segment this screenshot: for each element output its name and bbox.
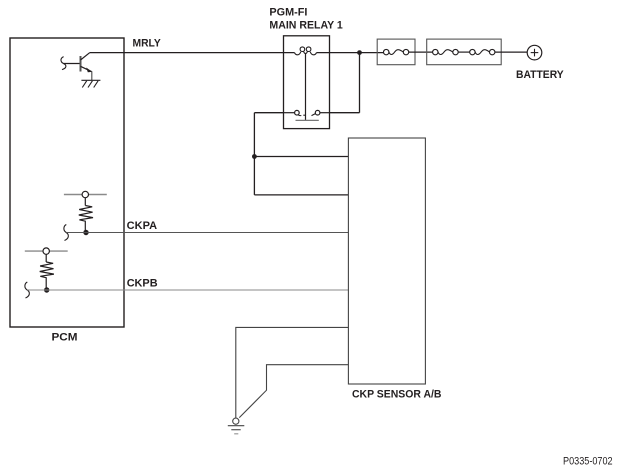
svg-text:CKPA: CKPA <box>127 220 157 232</box>
svg-text:PCM: PCM <box>52 332 78 344</box>
svg-text:MAIN RELAY 1: MAIN RELAY 1 <box>269 20 342 32</box>
svg-text:BATTERY: BATTERY <box>516 69 564 81</box>
svg-text:MRLY: MRLY <box>133 37 162 49</box>
svg-text:CKPB: CKPB <box>127 278 158 290</box>
svg-text:P0335-0702: P0335-0702 <box>563 456 613 468</box>
svg-text:CKP SENSOR A/B: CKP SENSOR A/B <box>352 388 442 400</box>
svg-text:PGM-FI: PGM-FI <box>269 7 307 19</box>
